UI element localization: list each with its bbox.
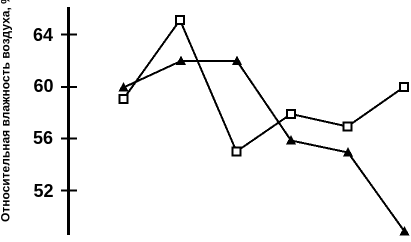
tick 60 xyxy=(61,86,77,88)
svg-text:64: 64 xyxy=(33,25,53,45)
tick 56 xyxy=(61,138,77,140)
series: triangles line xyxy=(124,61,405,232)
tick 64 xyxy=(61,34,77,36)
svg-text:Относительная влажность воздух: Относительная влажность воздуха, % xyxy=(0,0,13,222)
triangle markers xyxy=(119,56,410,236)
svg-text:52: 52 xyxy=(33,181,53,201)
series: squares line xyxy=(124,20,405,152)
tick 52 xyxy=(61,190,77,192)
y-axis line xyxy=(67,7,70,235)
svg-text:56: 56 xyxy=(33,128,53,148)
square markers xyxy=(120,16,408,155)
svg-text:60: 60 xyxy=(33,76,53,96)
